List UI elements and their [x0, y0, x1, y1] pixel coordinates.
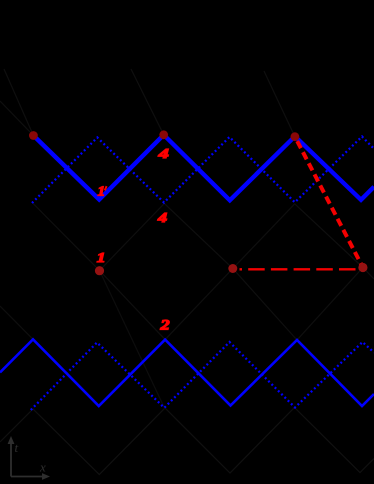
- wire gray zigzag B dots to bottom peaks: [100, 268, 374, 341]
- node middle dot 2: [228, 264, 237, 273]
- node top dot 1: [29, 131, 38, 140]
- wire faint steep line into top dot 1: [4, 69, 33, 136]
- svg-text:1: 1: [97, 250, 106, 265]
- node top dot 3: [291, 132, 300, 141]
- svg-text:4: 4: [157, 210, 167, 226]
- bottom dotted blue trajectory: [31, 342, 374, 410]
- svg-text:2: 2: [159, 316, 169, 333]
- wire gray segment B0 left edge to bottom peak 1: [0, 306, 33, 339]
- node middle dot 3: [358, 263, 367, 272]
- red dashed horizontal line dot2 to dot3: [240, 268, 357, 270]
- svg-text:1: 1: [98, 184, 106, 199]
- wire gray zigzag A between bands: [33, 203, 363, 271]
- wire faint steep line into top dot 3: [264, 71, 295, 137]
- svg-text:4: 4: [157, 145, 169, 161]
- node middle dot 1: [95, 266, 104, 275]
- svg-text:t: t: [15, 440, 19, 455]
- top solid thick blue trajectory: [33, 135, 374, 201]
- axes x arrow horizontal: [11, 476, 45, 478]
- axes t arrow vertical: [8, 436, 50, 480]
- node top dot 2: [159, 130, 168, 139]
- wire gray zigzag C below bottom band: [0, 408, 374, 475]
- wire faint 45deg line into top dot 1: [0, 101, 33, 136]
- svg-text:x: x: [39, 460, 46, 475]
- red dashed steep jump line: [297, 141, 363, 267]
- wire faint steep line into top dot 2: [131, 69, 164, 135]
- bottom solid blue trajectory: [0, 339, 374, 406]
- wire gray steep line dot 1 to bottom dotted valley: [100, 271, 165, 409]
- label prime tick: [105, 186, 107, 190]
- top dotted blue trajectory: [32, 137, 374, 204]
